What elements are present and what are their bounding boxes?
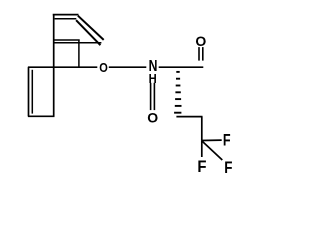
- wire: bond C-F down: [201, 141, 203, 157]
- wire: upper-ring diagonal outer: [78, 16, 104, 40]
- wire: ring long vertical: [53, 15, 55, 116]
- wire: bond C-F diagonal: [202, 141, 222, 160]
- wire: main chain horizontal to O: [28, 66, 97, 68]
- wire: left ring bottom horizontal: [28, 115, 55, 117]
- wire: N=O double bond left line: [150, 83, 152, 110]
- wire: C=O aldehyde double bond left line: [198, 47, 200, 61]
- wire: left ring inner double bond line: [31, 70, 33, 114]
- svg-text:F: F: [224, 159, 232, 177]
- wire: chain CH2 vertical to CF3 carbon: [201, 117, 203, 141]
- wire: top double bond lower line: [55, 18, 77, 20]
- svg-text:F: F: [197, 158, 206, 176]
- wire: mid horizontal short double partner: [54, 39, 80, 41]
- wire: left ring outer vertical: [28, 67, 30, 116]
- wire: C=O aldehyde double bond right line: [202, 47, 204, 61]
- svg-text:H: H: [149, 71, 157, 86]
- wire: vertical from mid ring down to chain: [78, 40, 80, 67]
- svg-text:F: F: [223, 132, 231, 150]
- svg-text:O: O: [99, 60, 108, 75]
- wire: N=O double bond right line: [153, 83, 155, 110]
- wire: top double bond upper line: [53, 14, 79, 16]
- wire: mid horizontal long to diagonal tip: [54, 42, 101, 44]
- svg-text:O: O: [147, 109, 158, 125]
- wire: upper-ring diagonal inner: [76, 20, 100, 45]
- wire: chain O to N: [109, 66, 147, 68]
- node: dashed stereo wedge: [174, 72, 181, 113]
- wire: bond C-F right: [202, 139, 222, 141]
- wire: chain CH2 horizontal: [176, 116, 202, 118]
- wire: chain N to carbonyl carbon: [159, 66, 204, 68]
- svg-text:O: O: [195, 33, 206, 49]
